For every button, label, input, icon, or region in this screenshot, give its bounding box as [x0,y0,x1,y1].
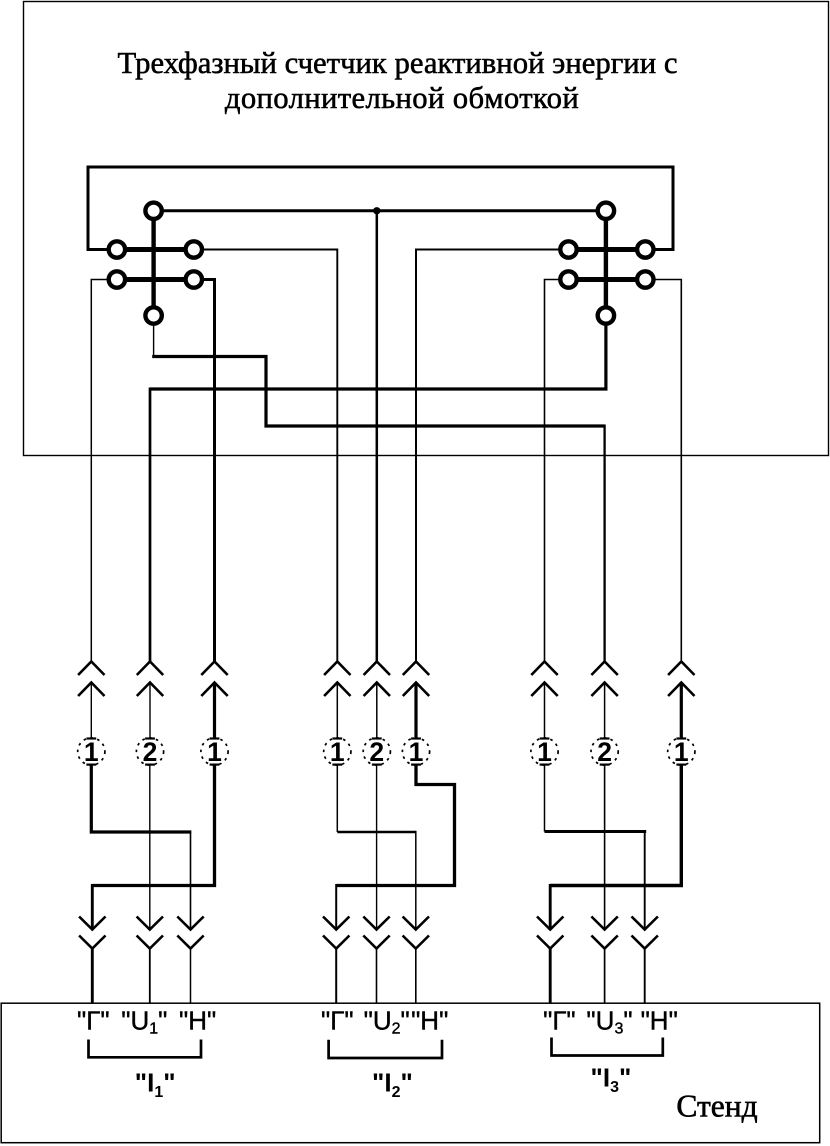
wire: left winding row1 right terminal down to middle connector 1 [204,250,337,662]
wire: right winding bottom terminal routed left [150,323,606,389]
wire segment down to G1 connector [91,884,94,930]
wire segment down to H1 connector [190,831,192,930]
connector pair (plug) at x=214.5 [201,662,227,739]
svg-text:1: 1 [84,737,99,767]
node label circled 1 at x=416.0 [402,737,429,767]
node label circled 1 at x=681.3 [668,737,695,767]
svg-text:"Н": "Н" [411,1006,448,1036]
wire: right 3 to stand G3 [550,765,681,886]
wire: right 2 straight to stand U3 [604,765,606,930]
svg-text:"U1": "U1" [121,1006,167,1038]
connector pair (socket) into stand terminal Г3 [537,917,563,1004]
current group bracket I3 [552,1038,663,1056]
connector pair (socket) into stand terminal Н2 [403,917,429,1004]
svg-text:Стенд: Стенд [676,1089,757,1124]
wire: left winding bottom terminal routed to right connector 2 [152,357,604,427]
wire jog right [337,831,416,833]
connector pair (socket) into stand terminal Н1 [177,917,203,1004]
wire jog right [545,830,647,833]
connector pair (plug) at x=91.3 [78,662,104,739]
wire: continuation down to left connector 2 [149,388,152,662]
wire: right winding row1 left terminal down to middle connector 3 [416,250,559,662]
connector pair (plug) at x=544.5 [531,662,557,739]
svg-text:2: 2 [369,737,384,767]
wire: mid 1 to stand H2 [336,765,338,832]
wire: right 1 to stand H3 [544,765,546,832]
svg-text:"U3": "U3" [586,1006,632,1038]
connector pair (socket) into stand terminal U2 [363,917,389,1004]
wire segment down to G3 connector [549,884,552,930]
connector pair (socket) into stand terminal U1 [137,917,163,1004]
wire segment down to H3 connector [644,830,646,930]
wire: left winding row2 right terminal down to left connector 3 [204,280,215,662]
connector pair (plug) at x=376.8 [364,662,390,739]
connector pair (plug) at x=337.3 [324,662,350,739]
connector pair (socket) into stand terminal Н3 [632,917,658,1004]
svg-text:"Г": "Г" [321,1006,354,1036]
wire: left 3 to stand G1 [92,765,214,886]
wire: mid 2 straight to stand U2 [376,765,378,930]
connector pair (plug) at x=681.3 [668,662,694,739]
svg-text:2: 2 [143,737,158,767]
wire: left 1 to stand H1 [91,765,191,832]
svg-text:дополнительной обмоткой: дополнительной обмоткой [225,81,579,115]
wire segment down to H2 connector [415,831,417,930]
wire: from junction node down to middle connector 2 [376,211,379,662]
current group bracket I1 [89,1040,202,1058]
connector pair (socket) into stand terminal U3 [591,917,617,1004]
connector pair (plug) at x=150.0 [137,662,163,739]
connector pair (plug) at x=604.6 [591,662,617,739]
junction node on top link [373,207,380,214]
node label circled 2 at x=376.8 [363,737,390,767]
node label circled 1 at x=544.5 [531,737,558,767]
svg-text:"Г": "Г" [543,1006,576,1036]
wire: left 2 straight to stand U1 [149,765,151,930]
stand box [1,1003,820,1142]
node label circled 2 at x=604.6 [591,737,618,767]
svg-text:1: 1 [330,737,345,767]
wire: right winding row2 right terminal down to right connector 3 [655,280,681,662]
svg-text:"Н": "Н" [179,1006,216,1036]
svg-text:"U2": "U2" [364,1006,410,1038]
left winding element of meter [109,203,202,324]
connector pair (socket) into stand terminal Г1 [79,917,105,1004]
node label circled 1 at x=337.3 [324,737,351,767]
current group bracket I2 [329,1040,442,1058]
wire: left winding bottom terminal lead [153,323,155,357]
right winding element of meter [560,203,653,324]
node label circled 1 at x=214.5 [201,737,228,767]
wire: right winding row2 left terminal down to right connector 1 [545,280,559,662]
svg-text:1: 1 [207,737,222,767]
wire: phase bus from left winding terminal over the top to right winding terminal [88,167,673,250]
wire: left winding row2 left terminal down to left connector 1 [91,280,107,662]
svg-text:Трехфазный счетчик реактивной: Трехфазный счетчик реактивной энергии с [118,46,678,80]
wire: link between top terminals of both windings [154,209,606,212]
wire: mid 3 to stand G2 [336,765,454,886]
svg-text:1: 1 [537,737,552,767]
connector pair (socket) into stand terminal Г2 [323,917,349,1004]
svg-text:1: 1 [409,737,424,767]
svg-text:1: 1 [674,737,689,767]
title text [118,46,678,115]
node label circled 1 at x=91.3 [78,737,105,767]
connector pair (plug) at x=416.0 [403,662,429,739]
wire segment down to G2 connector [335,884,337,930]
meter enclosure box [24,2,829,456]
svg-text:"Н": "Н" [641,1006,678,1036]
svg-text:2: 2 [597,737,612,767]
svg-text:"Г": "Г" [77,1006,110,1036]
node label circled 2 at x=150.0 [136,737,163,767]
wire: continuation down to right connector 2 [603,425,605,662]
